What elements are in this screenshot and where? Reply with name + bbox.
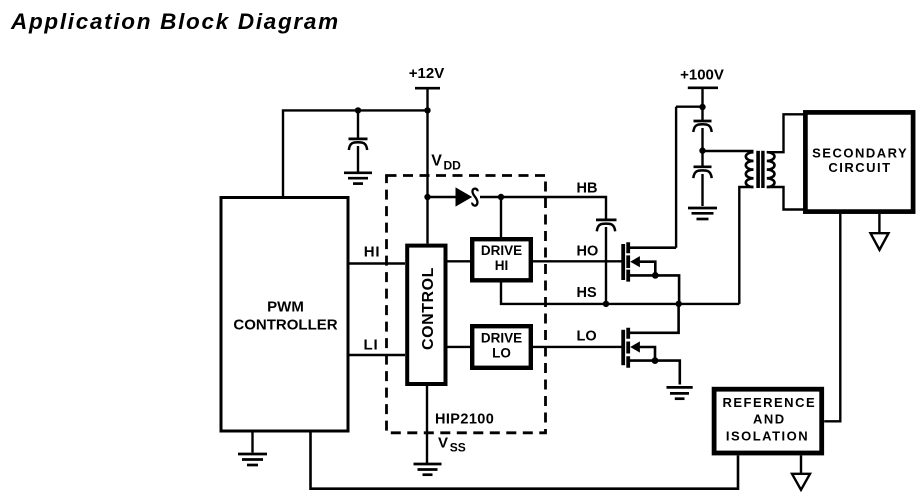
diode squiggle cathode [472, 189, 477, 206]
PWM controller box [221, 198, 348, 432]
wire VSS ground stem [426, 386, 428, 463]
node HS/bootstrap [603, 301, 609, 307]
capacitor C1 [349, 110, 368, 171]
node Q1 source/arrow [652, 272, 659, 279]
svg-text:PWM: PWM [267, 299, 304, 316]
wire +12V vertical to CONTROL [426, 88, 428, 243]
CONTROL box [407, 246, 445, 384]
wire secondary top to secondary circuit [767, 114, 804, 152]
wire CONTROL to DRIVE LO [446, 346, 473, 348]
DRIVE LO box [472, 326, 531, 368]
svg-text:+12V: +12V [409, 65, 444, 82]
svg-text:HIP2100: HIP2100 [435, 412, 494, 428]
svg-text:V: V [438, 435, 448, 452]
transformer T1 secondary winding [767, 152, 775, 187]
svg-text:HB: HB [577, 181, 598, 197]
svg-text:CIRCUIT: CIRCUIT [828, 160, 891, 175]
svg-text:DRIVE: DRIVE [481, 243, 522, 258]
DRIVE HI box [472, 239, 531, 280]
ground C3 [688, 208, 717, 219]
wire +100V left branch to Q1 drain [676, 105, 703, 107]
wire VDD to diode [428, 196, 458, 198]
wire primary bottom to HS [739, 187, 753, 304]
ground C1 [344, 173, 372, 184]
wire HI [350, 262, 406, 264]
svg-text:ISOLATION: ISOLATION [726, 429, 809, 444]
wire C2/C3 node to transformer primary [703, 150, 754, 152]
wire secondary box to reference box [824, 214, 840, 421]
capacitor bootstrap [596, 220, 617, 304]
svg-text:LI: LI [364, 337, 379, 354]
wire CONTROL to DRIVE HI [446, 260, 473, 262]
wire HS from DRIVE HI bottom [501, 283, 739, 304]
svg-text:HI: HI [495, 258, 509, 273]
wire node to DRIVE HI top [500, 197, 502, 237]
svg-text:LO: LO [492, 346, 511, 361]
transistor Q2 low-side MOSFET [623, 304, 680, 385]
node top rail / C1 [355, 107, 361, 113]
svg-text:Application Block Diagram: Application Block Diagram [10, 9, 340, 34]
wire top rail to PWM [283, 110, 428, 196]
svg-text:CONTROLLER: CONTROLLER [233, 317, 337, 334]
node Q2 source/arrow [652, 357, 659, 364]
svg-text:CONTROL: CONTROL [420, 267, 437, 350]
label VSS [438, 435, 466, 455]
wire LO [531, 346, 624, 348]
wire LI [350, 354, 406, 356]
node +100V branch [699, 104, 705, 110]
transformer T1 core [756, 151, 764, 188]
svg-text:HI: HI [364, 244, 381, 261]
svg-text:AND: AND [753, 412, 786, 427]
ground VSS [414, 464, 442, 475]
svg-text:REFERENCE: REFERENCE [722, 395, 816, 410]
node diode/drive-hi [498, 194, 504, 200]
label VDD [431, 152, 461, 172]
svg-text:HO: HO [577, 243, 599, 259]
SECONDARY CIRCUIT box [805, 112, 913, 211]
svg-text:DRIVE: DRIVE [481, 331, 522, 346]
+12V supply bar [415, 87, 440, 90]
node VDD/HB junction [424, 194, 430, 200]
ground secondary (open triangle) [871, 214, 889, 250]
svg-text:LO: LO [577, 329, 597, 345]
node C2/C3 to transformer [699, 147, 705, 153]
svg-text:+100V: +100V [680, 67, 724, 84]
diode D1 [456, 188, 471, 206]
wire PWM bottom to reference [311, 433, 739, 489]
Q2 body arrow [630, 341, 640, 352]
transistor Q1 high-side MOSFET [623, 242, 679, 304]
node HS/mosfets [676, 301, 682, 307]
ground Q2 [667, 387, 693, 398]
svg-text:SS: SS [450, 441, 466, 455]
+100V supply bar [688, 86, 718, 89]
ground PWM [238, 433, 267, 466]
svg-text:HS: HS [577, 285, 597, 301]
svg-text:DD: DD [444, 158, 462, 172]
svg-text:V: V [431, 152, 442, 169]
node +12V rail [424, 107, 430, 113]
wire secondary bottom to secondary circuit [767, 187, 804, 210]
capacitor C2 [693, 121, 711, 166]
REFERENCE AND ISOLATION box [714, 389, 822, 453]
capacitor C3 [693, 167, 711, 206]
ground reference (open triangle) [792, 455, 810, 489]
wire +100V vertical [701, 88, 703, 121]
transformer T1 primary winding [746, 152, 754, 187]
wire HO [531, 260, 623, 262]
dashed box HIP2100 [387, 176, 546, 433]
wire diode to HB corner [480, 197, 606, 219]
Q1 body arrow [630, 256, 640, 267]
wire Q1 drain to +100V rail [675, 107, 677, 248]
svg-text:SECONDARY: SECONDARY [812, 145, 908, 160]
